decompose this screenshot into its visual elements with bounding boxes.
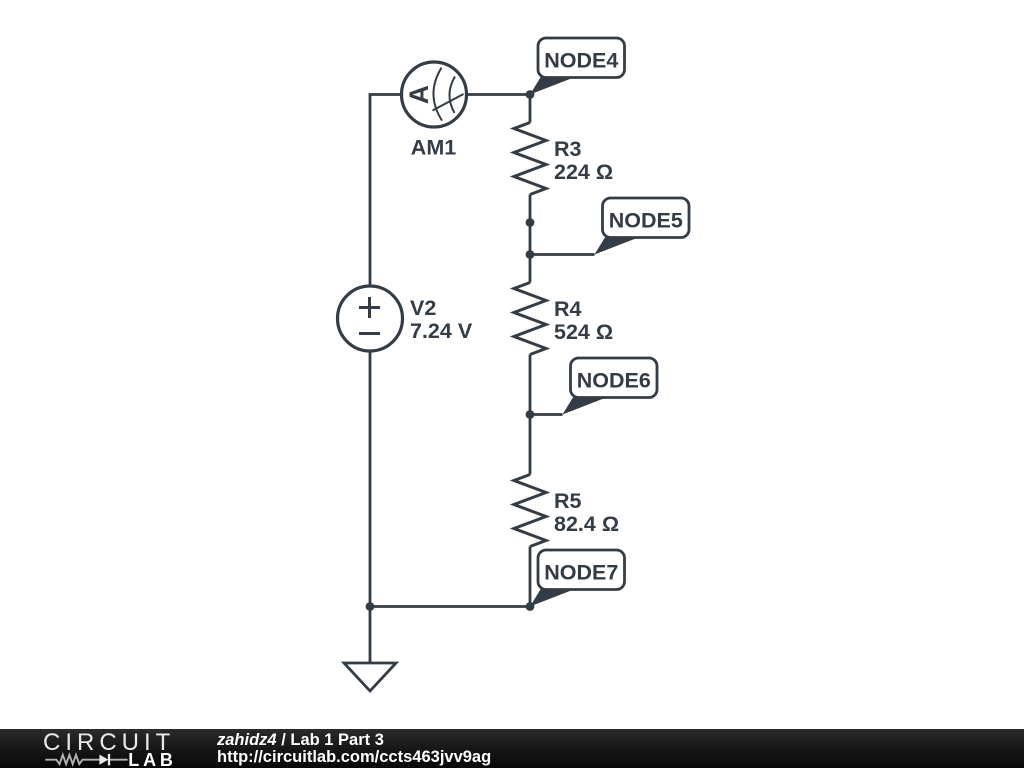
wire: stub to NODE5 flag [530,253,595,256]
ground [344,663,396,691]
svg-text:R5: R5 [554,489,582,513]
label R3 [554,137,613,184]
svg-text:R3: R3 [554,137,582,161]
svg-text:LAB: LAB [128,750,176,768]
label V2 [410,296,473,343]
wire: NODE4 to R3 [529,95,532,123]
resistor R3 [514,123,546,195]
svg-text:A: A [404,85,434,104]
ammeter AM1 [402,62,467,127]
node: junction dot NODE6 [526,410,535,419]
label AM1 [411,136,456,160]
wire: R4 to R5 [529,355,532,475]
svg-text:7.24 V: 7.24 V [410,319,473,343]
name flag NODE4 [530,38,625,95]
svg-text:NODE7: NODE7 [544,561,618,585]
CircuitLab logo [0,729,190,768]
voltage source V2 [338,286,403,351]
svg-text:82.4 Ω: 82.4 Ω [554,512,619,536]
node: junction dot NODE5 [526,250,535,259]
wire: ammeter left to V2 top (corner) [370,95,402,287]
node: junction dot NODE7 [526,602,535,611]
name flag NODE6 [563,358,658,415]
wire: R3 to R4 [529,195,532,283]
wire: R5 to NODE7 [529,547,532,607]
label R5 [554,489,619,536]
wire: ammeter right to NODE4 [467,93,531,96]
label R4 [554,297,613,344]
name flag NODE5 [595,198,690,255]
svg-text:AM1: AM1 [411,136,456,160]
svg-text:R4: R4 [554,297,582,321]
node: junction dot NODE4 [526,90,535,99]
footer bar [0,729,1024,768]
footer text [217,732,491,767]
wire: bottom horizontal [370,605,530,608]
node: junction dot bottom left [366,602,375,611]
wire: stub to NODE6 flag [530,413,563,416]
svg-text:NODE4: NODE4 [544,49,618,73]
svg-text:NODE5: NODE5 [609,209,683,233]
node: junction dot between R3 and NODE5 [526,218,535,227]
resistor R5 [514,475,546,547]
svg-text:224 Ω: 224 Ω [554,160,613,184]
svg-text:NODE6: NODE6 [577,369,651,393]
name flag NODE7 [530,550,625,607]
wire: left branch V2 bottom vertical [369,351,372,607]
svg-text:V2: V2 [410,296,436,320]
svg-text:524 Ω: 524 Ω [554,320,613,344]
wire: ground stub [369,607,372,664]
resistor R4 [514,283,546,355]
